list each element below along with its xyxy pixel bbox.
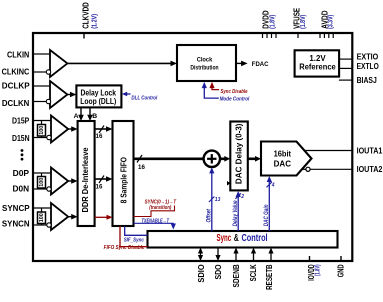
wire sync red DDR to FIFO bbox=[95, 216, 109, 218]
svg-text:A: A bbox=[74, 113, 79, 120]
wire SDO (output) bbox=[217, 248, 219, 257]
wire IOUTA1 bbox=[305, 150, 353, 152]
wire D15 input pair bbox=[34, 121, 51, 138]
block Sync & Control bbox=[148, 231, 338, 248]
wire B bbox=[89, 107, 91, 117]
svg-text:Sync Disable: Sync Disable bbox=[221, 89, 249, 95]
wire DCLK input pair bbox=[34, 86, 50, 102]
wire SYNC input pair bbox=[34, 208, 51, 225]
wire EXTLO bbox=[339, 67, 352, 69]
svg-text:DLL Control: DLL Control bbox=[131, 95, 157, 101]
svg-text:RESETB: RESETB bbox=[264, 264, 274, 290]
block 8 Sample FIFO bbox=[113, 121, 134, 226]
svg-text:Control: Control bbox=[242, 233, 268, 244]
svg-text:100: 100 bbox=[39, 126, 45, 135]
svg-text:DCLKP: DCLKP bbox=[2, 80, 30, 90]
wire Sync Disable (red) bbox=[212, 84, 219, 90]
pin DVDD ticks bbox=[263, 34, 277, 38]
resistor 100 (D0 termination) bbox=[38, 177, 46, 189]
svg-text:SIF_Sync: SIF_Sync bbox=[124, 237, 144, 243]
svg-text:EXTLO: EXTLO bbox=[357, 61, 379, 71]
svg-text:D15N: D15N bbox=[12, 133, 30, 143]
wire clock to Clock Distribution bbox=[67, 62, 172, 64]
svg-text:FIFO Sync Disable: FIFO Sync Disable bbox=[104, 245, 145, 251]
wire Offset (blue, to adder) bbox=[211, 171, 213, 232]
wire DCLK to DLL bbox=[67, 94, 72, 96]
svg-text:13: 13 bbox=[215, 197, 221, 203]
wire RESETB (input) bbox=[270, 251, 272, 261]
bubble D15N bbox=[47, 135, 51, 139]
svg-text:16bit: 16bit bbox=[274, 149, 292, 159]
svg-text:B: B bbox=[92, 113, 97, 120]
svg-text:Reference: Reference bbox=[299, 62, 336, 72]
block 1.2V Reference bbox=[295, 50, 340, 76]
svg-text:Distribution: Distribution bbox=[190, 64, 218, 71]
svg-text:(1.2V): (1.2V) bbox=[90, 14, 99, 29]
svg-text:SDO: SDO bbox=[213, 264, 223, 279]
svg-text:SDIO: SDIO bbox=[196, 264, 206, 283]
bus DDR to FIFO lower 16 bbox=[95, 178, 108, 180]
svg-text:4: 4 bbox=[271, 182, 275, 188]
wire FIFO Sync Disable (red) bbox=[120, 226, 148, 247]
bus adder to DAC Delay bbox=[220, 158, 226, 161]
svg-text:2: 2 bbox=[240, 194, 244, 200]
wire SDENB (input) bbox=[235, 251, 237, 261]
bubble SYNCN bbox=[47, 223, 51, 227]
svg-text:(3.3V): (3.3V) bbox=[326, 14, 335, 29]
svg-text:DAC Gain: DAC Gain bbox=[264, 204, 270, 226]
svg-text:CLKIN: CLKIN bbox=[7, 49, 29, 59]
wire D15 to DDR bbox=[68, 128, 73, 130]
wire EXTIO bbox=[339, 58, 352, 60]
block DLL bbox=[76, 85, 121, 107]
wire SIF_Sync (blue) bbox=[125, 226, 148, 235]
svg-text:(1.8V): (1.8V) bbox=[312, 264, 321, 276]
bus FIFO to adder 16 bbox=[134, 158, 204, 161]
block Clock Distribution bbox=[177, 45, 236, 81]
pin VFUSE tick bbox=[297, 34, 299, 38]
wire SCLK (input) bbox=[253, 251, 255, 261]
bubble D0N bbox=[47, 187, 51, 191]
clock arrowhead inside DAC Delay bbox=[227, 181, 231, 186]
svg-text:Offset: Offset bbox=[207, 208, 213, 222]
wire BIASJ bbox=[339, 79, 352, 81]
svg-text:IOUTA1: IOUTA1 bbox=[357, 145, 383, 155]
svg-text:Mode Control: Mode Control bbox=[220, 96, 250, 102]
wire Delay Value (blue, to DAC Delay) bbox=[237, 194, 239, 231]
buffer U-DCLK triangle bbox=[50, 81, 67, 108]
svg-text:TXENABLE→T: TXENABLE→T bbox=[142, 219, 170, 225]
svg-text:FDAC: FDAC bbox=[252, 61, 269, 68]
wire SDIO (bidirectional) bbox=[200, 250, 202, 259]
block DDR De-Interleave bbox=[78, 121, 95, 226]
svg-text:16: 16 bbox=[96, 184, 103, 191]
wire DLL Control bbox=[122, 92, 127, 96]
resistor 100 (D15 termination) bbox=[38, 125, 46, 137]
svg-text:16: 16 bbox=[138, 164, 145, 171]
pin AVDD ticks bbox=[320, 34, 333, 38]
wire IOUTA2 bbox=[310, 168, 352, 170]
svg-text:SDENB: SDENB bbox=[231, 264, 241, 287]
buffer U-D0 triangle bbox=[51, 168, 68, 195]
svg-text:EXTIO: EXTIO bbox=[357, 51, 379, 61]
svg-text:(1.8V): (1.8V) bbox=[267, 14, 276, 29]
wire FDAC bbox=[236, 62, 243, 64]
wire D0 input pair bbox=[34, 173, 51, 189]
svg-text:16: 16 bbox=[96, 133, 103, 140]
svg-text:CLKINC: CLKINC bbox=[2, 67, 30, 77]
svg-text:BIASJ: BIASJ bbox=[357, 75, 377, 85]
svg-text:IOUTA2: IOUTA2 bbox=[357, 164, 383, 174]
wire SYNC to DDR bbox=[68, 216, 73, 218]
svg-text:(transition): (transition) bbox=[149, 205, 171, 211]
wire D0 to DDR bbox=[68, 180, 73, 182]
svg-text:100: 100 bbox=[39, 213, 45, 222]
svg-text:&: & bbox=[234, 233, 239, 244]
adder bbox=[204, 151, 220, 167]
pin IOVDD tick bbox=[309, 256, 311, 261]
svg-text:D0P: D0P bbox=[13, 168, 30, 178]
bus DAC Delay to DAC bbox=[248, 158, 257, 161]
svg-text:Delay Value: Delay Value bbox=[233, 200, 239, 227]
wire Mode Control (blue) bbox=[204, 84, 219, 98]
annotation SYNC transition (red) bbox=[134, 206, 175, 217]
pin CLKVDD tick bbox=[83, 34, 85, 39]
svg-text:SYNCP: SYNCP bbox=[2, 203, 30, 213]
annotation TXENABLE (blue) bbox=[134, 223, 174, 226]
block 16bit DAC bbox=[261, 142, 312, 176]
wire CLKIN input pair bbox=[34, 54, 50, 72]
bubble CLKINC bbox=[46, 70, 50, 74]
svg-text:Clock: Clock bbox=[197, 57, 213, 64]
bubble DCLKN bbox=[46, 99, 50, 103]
svg-text:DCLKN: DCLKN bbox=[2, 98, 29, 108]
svg-text:D15P: D15P bbox=[12, 115, 30, 125]
svg-text:DAC: DAC bbox=[274, 158, 291, 168]
pin GND tick bbox=[340, 256, 342, 261]
bubble IOUTA2 bbox=[306, 167, 310, 171]
svg-text:GND: GND bbox=[336, 264, 346, 277]
wire A bbox=[80, 107, 82, 117]
svg-text:(1.8V): (1.8V) bbox=[298, 14, 307, 29]
ellipsis dots bbox=[21, 149, 24, 160]
resistor 100 (SYNC termination) bbox=[38, 212, 46, 224]
buffer U-SYNC triangle bbox=[51, 203, 68, 230]
wire DAC Gain (blue, to DAC) bbox=[268, 179, 270, 231]
svg-text:DAC Delay (0-3): DAC Delay (0-3) bbox=[234, 123, 244, 184]
svg-text:SCLK: SCLK bbox=[248, 264, 258, 282]
svg-text:100: 100 bbox=[39, 178, 45, 187]
buffer U-CLK triangle bbox=[50, 50, 67, 77]
chip outline bbox=[33, 33, 352, 261]
svg-text:8 Sample FIFO: 8 Sample FIFO bbox=[119, 157, 129, 204]
svg-text:Sync: Sync bbox=[217, 233, 232, 244]
svg-text:D0N: D0N bbox=[13, 184, 30, 194]
svg-text:DDR De-Interleave: DDR De-Interleave bbox=[80, 147, 90, 212]
svg-text:Loop (DLL): Loop (DLL) bbox=[80, 96, 116, 106]
buffer U-D15 triangle bbox=[51, 116, 68, 143]
bus DDR to FIFO upper 16 bbox=[95, 128, 108, 130]
block DAC Delay (0-3) bbox=[230, 122, 248, 191]
svg-text:SYNCN: SYNCN bbox=[2, 219, 30, 229]
